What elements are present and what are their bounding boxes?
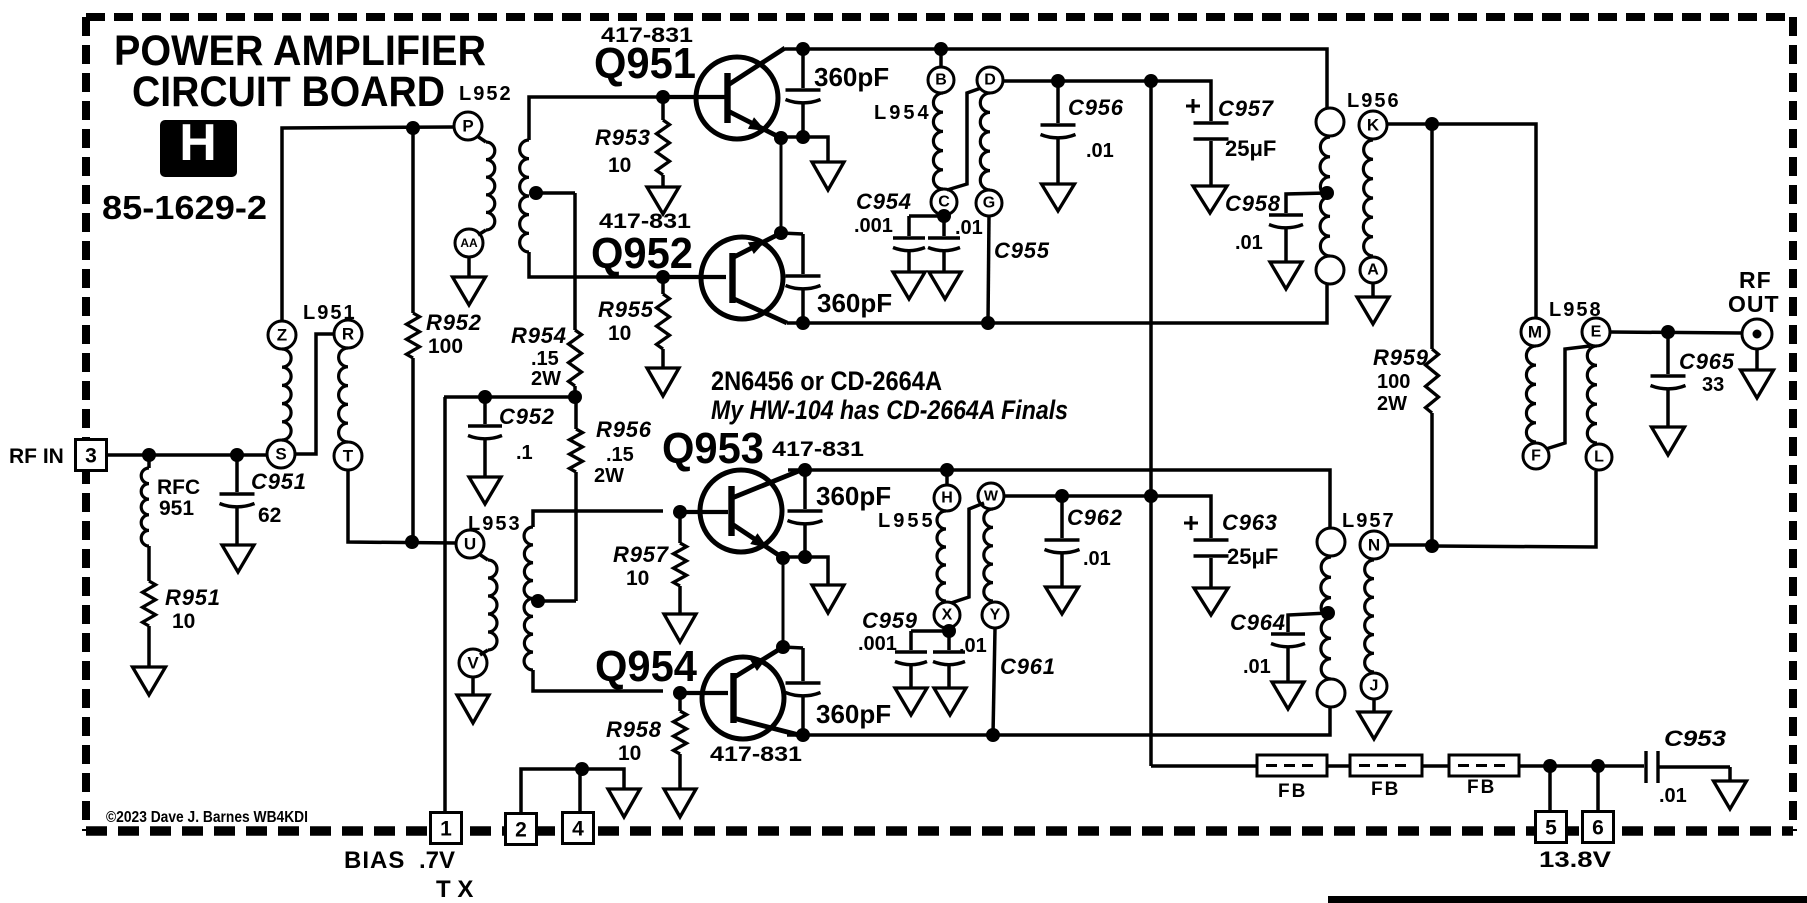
svg-text:AA: AA [460, 236, 478, 250]
node Q954 base [673, 686, 687, 700]
terminal L2 [1586, 444, 1612, 470]
capacitor C958 [1269, 215, 1303, 262]
wire Z up to P node [282, 127, 454, 321]
wire Q953 base [680, 510, 728, 514]
annotation 2N6456 [711, 366, 942, 396]
node supply bus mid [1144, 489, 1158, 503]
transistor Q954 [702, 657, 784, 739]
svg-text:2N6456 or CD-2664A: 2N6456 or CD-2664A [711, 366, 942, 396]
svg-text:417-831: 417-831 [772, 438, 864, 461]
L953 secondary center tap [531, 594, 545, 608]
L955 label [878, 510, 936, 532]
L955 winding H-X [937, 511, 946, 601]
R959 label [1373, 345, 1429, 415]
node supply bus top [1144, 74, 1158, 88]
FB3 label [1467, 777, 1496, 798]
ground C965 [1652, 427, 1685, 455]
C952 label [499, 404, 555, 464]
L952 label [459, 83, 513, 105]
capacitor C952 [468, 397, 502, 477]
resistor R956 [535, 397, 583, 601]
svg-text:R954: R954 [511, 323, 567, 348]
svg-text:BIAS: BIAS [344, 847, 405, 874]
terminal T [334, 442, 362, 470]
C963 label [1222, 510, 1278, 569]
L957 winding [1321, 557, 1331, 679]
svg-text:R953: R953 [595, 125, 651, 150]
L953 label [468, 513, 522, 535]
transistor Q953 [700, 470, 782, 552]
Q951 emitter [728, 111, 781, 138]
R956 label [594, 417, 652, 487]
node Q952 collector cap [796, 316, 810, 330]
terminal 3 [76, 440, 107, 471]
ground C954b [929, 272, 961, 299]
360pF-3 label [816, 481, 891, 511]
L954 winding D-G [980, 93, 990, 190]
wire emitters Q953-Q954 [782, 558, 785, 647]
svg-text:L952: L952 [459, 83, 513, 105]
svg-text:J: J [1370, 678, 1379, 695]
ground Q953 emitter [812, 585, 844, 613]
wire to ground Q951 [803, 137, 828, 162]
ground R957 [664, 614, 696, 642]
node C959 [942, 624, 956, 638]
L954 winding B-C [933, 93, 943, 189]
svg-text:.15: .15 [606, 444, 634, 466]
C959 label [858, 608, 987, 657]
svg-text:.01: .01 [1086, 140, 1114, 162]
13.8V label [1539, 847, 1611, 872]
capacitor C953 series [1646, 751, 1730, 783]
wire C952 row [444, 395, 575, 399]
svg-text:.001: .001 [854, 215, 893, 237]
L958 label [1549, 299, 1603, 321]
svg-text:A: A [1367, 262, 1379, 279]
svg-text:33: 33 [1702, 374, 1724, 396]
Q951 collector [728, 48, 785, 85]
C953 label [1659, 726, 1726, 807]
svg-text:L954: L954 [874, 102, 932, 124]
svg-text:100: 100 [428, 335, 463, 358]
Q954 labels [595, 642, 802, 766]
wire Q952 emitter to cap [781, 233, 803, 234]
wire B lead [939, 49, 943, 68]
svg-text:360pF: 360pF [817, 288, 892, 318]
Q952 emitter up [732, 233, 781, 258]
node C961 bottom [986, 728, 1000, 742]
ground C964 [1272, 682, 1304, 709]
svg-text:.01: .01 [955, 217, 983, 239]
svg-text:V: V [467, 654, 479, 673]
svg-text:C965: C965 [1679, 349, 1735, 374]
terminal E [1582, 318, 1610, 346]
svg-text:C956: C956 [1068, 95, 1124, 120]
node Q951 base [656, 90, 670, 104]
svg-text:.01: .01 [1659, 785, 1687, 807]
scan artifact bar [1328, 896, 1807, 903]
ground C954 [893, 272, 925, 299]
svg-text:C957: C957 [1218, 96, 1275, 121]
capacitor C956 [1041, 81, 1076, 184]
node C952 [478, 390, 492, 404]
wire Q951 base [663, 95, 727, 99]
svg-text:OUT: OUT [1728, 291, 1780, 317]
wire FB2-FB3 [1422, 764, 1449, 768]
wire tap to C964 [1288, 613, 1328, 632]
node Q951 emitter [774, 131, 788, 145]
capacitor C964 [1271, 634, 1305, 682]
svg-text:RFC: RFC [157, 476, 200, 499]
wire to terminal 5 [1548, 766, 1552, 812]
svg-text:RF: RF [1739, 267, 1772, 293]
wire Q954 emitter to cap [783, 647, 803, 648]
node R959 top [1425, 117, 1439, 131]
node bus H [940, 463, 954, 477]
svg-text:2W: 2W [531, 368, 561, 390]
L957 form top circle [1317, 528, 1345, 556]
svg-text:6: 6 [1592, 817, 1604, 840]
svg-text:R951: R951 [165, 585, 221, 610]
section badge H [160, 114, 237, 177]
RFC951 label [157, 476, 200, 520]
capacitor C962 [1045, 496, 1080, 587]
Q953 labels [662, 424, 864, 473]
C956 label [1068, 95, 1124, 162]
Q954 collector down [733, 718, 799, 735]
node Q954 collector cap [796, 728, 810, 742]
capacitor C954 [893, 238, 925, 272]
svg-text:M: M [1528, 323, 1542, 342]
wire W row [1004, 496, 1211, 538]
svg-text:62: 62 [258, 504, 281, 527]
svg-text:C: C [938, 194, 950, 211]
terminal A [1360, 257, 1386, 283]
ground J [1358, 700, 1390, 739]
node bus B [934, 42, 948, 56]
title text [114, 27, 486, 116]
L956 winding [1320, 137, 1330, 256]
svg-text:CIRCUIT BOARD: CIRCUIT BOARD [132, 68, 445, 116]
wire C to D [947, 88, 981, 190]
terminal X [934, 602, 960, 628]
ground C952 [469, 477, 501, 504]
svg-text:3: 3 [85, 445, 97, 468]
wire RF IN to S [107, 453, 267, 457]
FB2 label [1371, 779, 1400, 800]
node C958 tap [1320, 186, 1334, 200]
terminal Y [982, 602, 1008, 628]
node 360pF-3 top [798, 463, 812, 477]
svg-text:B: B [935, 72, 947, 89]
Q954 emitter up [733, 647, 783, 678]
node cap3 bottom [798, 550, 812, 564]
capacitor C959b .01 [933, 631, 965, 688]
svg-text:.001: .001 [858, 633, 897, 655]
svg-text:R955: R955 [598, 297, 654, 322]
svg-text:H: H [179, 114, 217, 172]
node C965 [1661, 325, 1675, 339]
svg-text:.01: .01 [1083, 548, 1111, 570]
Q951 labels [594, 24, 696, 88]
capacitor C965 [1651, 333, 1686, 427]
C962 label [1067, 505, 1123, 570]
svg-text:T: T [343, 447, 354, 466]
ground R951 [133, 667, 166, 695]
ground V [457, 677, 489, 723]
L956 form bottom circle [1316, 256, 1344, 284]
svg-text:2: 2 [515, 819, 527, 842]
L951 winding Z-S [282, 349, 291, 440]
wire F to E [1546, 346, 1590, 449]
L952 primary winding [477, 136, 495, 235]
svg-text:C959: C959 [862, 608, 918, 633]
terminal G [976, 190, 1002, 216]
L954 label [874, 102, 932, 124]
ground C951 [222, 545, 254, 572]
ground C953 [1714, 781, 1747, 809]
node terminal6 [1591, 759, 1605, 773]
L952 secondary winding [520, 97, 663, 277]
node cap1 bottom [796, 130, 810, 144]
resistor R958 [674, 693, 687, 789]
C961 label [1000, 654, 1056, 679]
node Q953 base [673, 505, 687, 519]
svg-text:FB: FB [1467, 777, 1496, 798]
L953 primary winding [479, 554, 497, 655]
svg-text:RF IN: RF IN [9, 445, 64, 468]
L956 form top circle [1316, 108, 1344, 136]
svg-text:10: 10 [626, 567, 649, 590]
terminal B [928, 67, 954, 93]
L957 sense winding N-J [1365, 560, 1374, 672]
wire FB3 to C953 [1519, 764, 1644, 768]
C958 label [1225, 191, 1281, 254]
terminal P [454, 112, 482, 140]
svg-text:2W: 2W [594, 465, 624, 487]
R952 label [426, 310, 482, 358]
ground C956 [1042, 184, 1075, 211]
node Q952 emitter [774, 226, 788, 240]
svg-text:C951: C951 [251, 469, 307, 494]
svg-text:D: D [984, 72, 996, 89]
svg-text:.01: .01 [959, 635, 987, 657]
svg-text:Q953: Q953 [662, 424, 764, 473]
svg-text:C955: C955 [994, 238, 1050, 263]
node Q953 emitter [776, 551, 790, 565]
svg-text:.7V: .7V [419, 847, 455, 874]
upper bottom bus [787, 284, 1327, 323]
terminal N [1360, 531, 1388, 559]
svg-text:H: H [941, 490, 953, 507]
svg-text:417-831: 417-831 [710, 743, 802, 766]
wire T to U [348, 470, 456, 543]
svg-text:©2023 Dave J. Barnes WB4KDI: ©2023 Dave J. Barnes WB4KDI [106, 809, 308, 826]
ground C957 [1193, 186, 1227, 213]
svg-text:W: W [984, 488, 999, 505]
capacitor 360pF Q954 [786, 648, 821, 735]
node C956 [1051, 74, 1065, 88]
C955 label [994, 238, 1050, 263]
RF IN label [9, 445, 64, 468]
node C951 top [230, 448, 244, 462]
lower top bus [788, 470, 1330, 528]
wire emitter to cap [781, 135, 803, 139]
svg-text:X: X [942, 607, 953, 624]
svg-text:Y: Y [990, 607, 1001, 624]
node C964 tap [1321, 606, 1335, 620]
part number 85-1629-2 [102, 189, 267, 226]
svg-text:C963: C963 [1222, 510, 1278, 535]
ground RF OUT [1741, 349, 1774, 398]
capacitor 360pF Q953 [788, 470, 823, 555]
ground A [1357, 284, 1389, 324]
L958 winding M-F [1526, 346, 1536, 442]
terminal S [267, 440, 295, 468]
L951 label [303, 302, 357, 324]
svg-text:C953: C953 [1664, 726, 1726, 751]
node RFC951 top [142, 448, 156, 462]
ground C959 [895, 688, 927, 715]
node T-U junction [405, 535, 419, 549]
terminal R [334, 320, 362, 348]
svg-text:Q952: Q952 [591, 229, 693, 278]
annotation HW-104 [711, 395, 1068, 425]
copyright [106, 809, 308, 826]
wire tap to R954 [531, 191, 575, 195]
svg-text:S: S [275, 445, 286, 464]
ground C958 [1270, 262, 1302, 289]
terminal 2 [506, 814, 537, 845]
Q952 labels [591, 210, 693, 278]
C951 label [251, 469, 307, 527]
360pF-2 label [817, 288, 892, 318]
terminal H [934, 485, 960, 511]
terminal Z [268, 321, 296, 349]
wire Q954 base [680, 691, 728, 695]
svg-text:L955: L955 [878, 510, 936, 532]
ground Q951 emitter [812, 162, 844, 190]
svg-text:5: 5 [1545, 817, 1557, 840]
node C954 [937, 209, 951, 223]
wire emitters Q951-Q952 [780, 138, 783, 233]
svg-text:U: U [464, 535, 476, 554]
svg-text:1: 1 [440, 818, 452, 841]
C964 label [1230, 610, 1286, 678]
resistor R953 [657, 97, 670, 187]
wire to ground Q953 [805, 557, 828, 585]
svg-text:10: 10 [608, 154, 631, 177]
RF OUT label [1728, 267, 1780, 317]
wire D row [1003, 81, 1211, 121]
svg-text:360pF: 360pF [816, 481, 891, 511]
node N junction [1425, 539, 1439, 553]
R954 label [511, 323, 567, 390]
svg-text:P: P [462, 117, 473, 136]
transistor Q951 [696, 57, 778, 139]
L957 label [1342, 510, 1396, 532]
resistor R952 [407, 128, 420, 542]
svg-text:L: L [1594, 449, 1604, 466]
svg-text:F: F [1531, 448, 1541, 465]
L956 sense winding K-A [1363, 140, 1373, 256]
svg-text:R958: R958 [606, 717, 662, 742]
svg-text:R959: R959 [1373, 345, 1429, 370]
L957 form bottom circle [1317, 679, 1345, 707]
wire E to RF OUT [1610, 332, 1742, 333]
R951 label [165, 585, 221, 633]
terminal 4 [563, 813, 594, 844]
wire terminals 2-4 to ground [521, 769, 624, 814]
svg-text:T X: T X [436, 876, 473, 903]
transistor Q952 [701, 237, 783, 319]
svg-text:10: 10 [618, 742, 641, 765]
C954 label [854, 189, 983, 239]
capacitor 360pF Q951 [786, 49, 821, 135]
ground terminals 2-4 [608, 789, 640, 817]
svg-text:2W: 2W [1377, 393, 1407, 415]
node 360pF-1 top [796, 42, 810, 56]
ground C962 [1046, 587, 1079, 614]
capacitor 360pF Q952 [786, 234, 821, 323]
svg-text:.1: .1 [516, 442, 533, 464]
terminal 1 [431, 813, 462, 844]
ground C959b [934, 688, 966, 715]
ground C963 [1194, 588, 1228, 615]
terminal AA [455, 229, 483, 257]
FB1 label [1278, 781, 1307, 802]
wire Y to bus [993, 629, 995, 735]
360pF-4 label [816, 699, 891, 729]
svg-text:R956: R956 [596, 417, 652, 442]
svg-text:L957: L957 [1342, 510, 1396, 532]
C965 label [1679, 349, 1735, 396]
svg-text:R957: R957 [613, 542, 670, 567]
C957 label [1218, 96, 1276, 161]
terminal 6 [1583, 812, 1614, 843]
wire N to R959 node [1388, 543, 1432, 547]
L955 winding W-Y [984, 509, 993, 601]
svg-text:85-1629-2: 85-1629-2 [102, 189, 267, 226]
wire K to M [1387, 124, 1536, 318]
ground R955 [647, 368, 679, 396]
wire N node to L [1432, 471, 1596, 547]
terminal U [456, 530, 484, 558]
node terminal4 wire [575, 762, 589, 776]
svg-text:Q954: Q954 [595, 642, 697, 691]
svg-text:R952: R952 [426, 310, 482, 335]
wire G to bus [988, 216, 989, 323]
svg-text:My HW-104 has CD-2664A Finals: My HW-104 has CD-2664A Finals [711, 395, 1068, 425]
wire H lead [945, 470, 949, 486]
svg-text:13.8V: 13.8V [1539, 847, 1611, 872]
resistor R954 [569, 193, 582, 397]
resistor R957 [674, 512, 687, 614]
R953 label [595, 125, 651, 177]
svg-text:E: E [1591, 324, 1602, 341]
svg-text:.15: .15 [531, 348, 559, 370]
ferrite bead FB1 [1257, 755, 1327, 776]
capacitor C957 electrolytic [1186, 99, 1229, 186]
L958 winding E-L [1587, 346, 1597, 443]
node R954-R956 [568, 390, 582, 404]
wire X to W [951, 503, 984, 603]
svg-text:C954: C954 [856, 189, 912, 214]
R958 label [606, 717, 662, 765]
R955 label [598, 297, 654, 345]
capacitor C951 [220, 455, 255, 545]
terminal M [1521, 318, 1549, 346]
